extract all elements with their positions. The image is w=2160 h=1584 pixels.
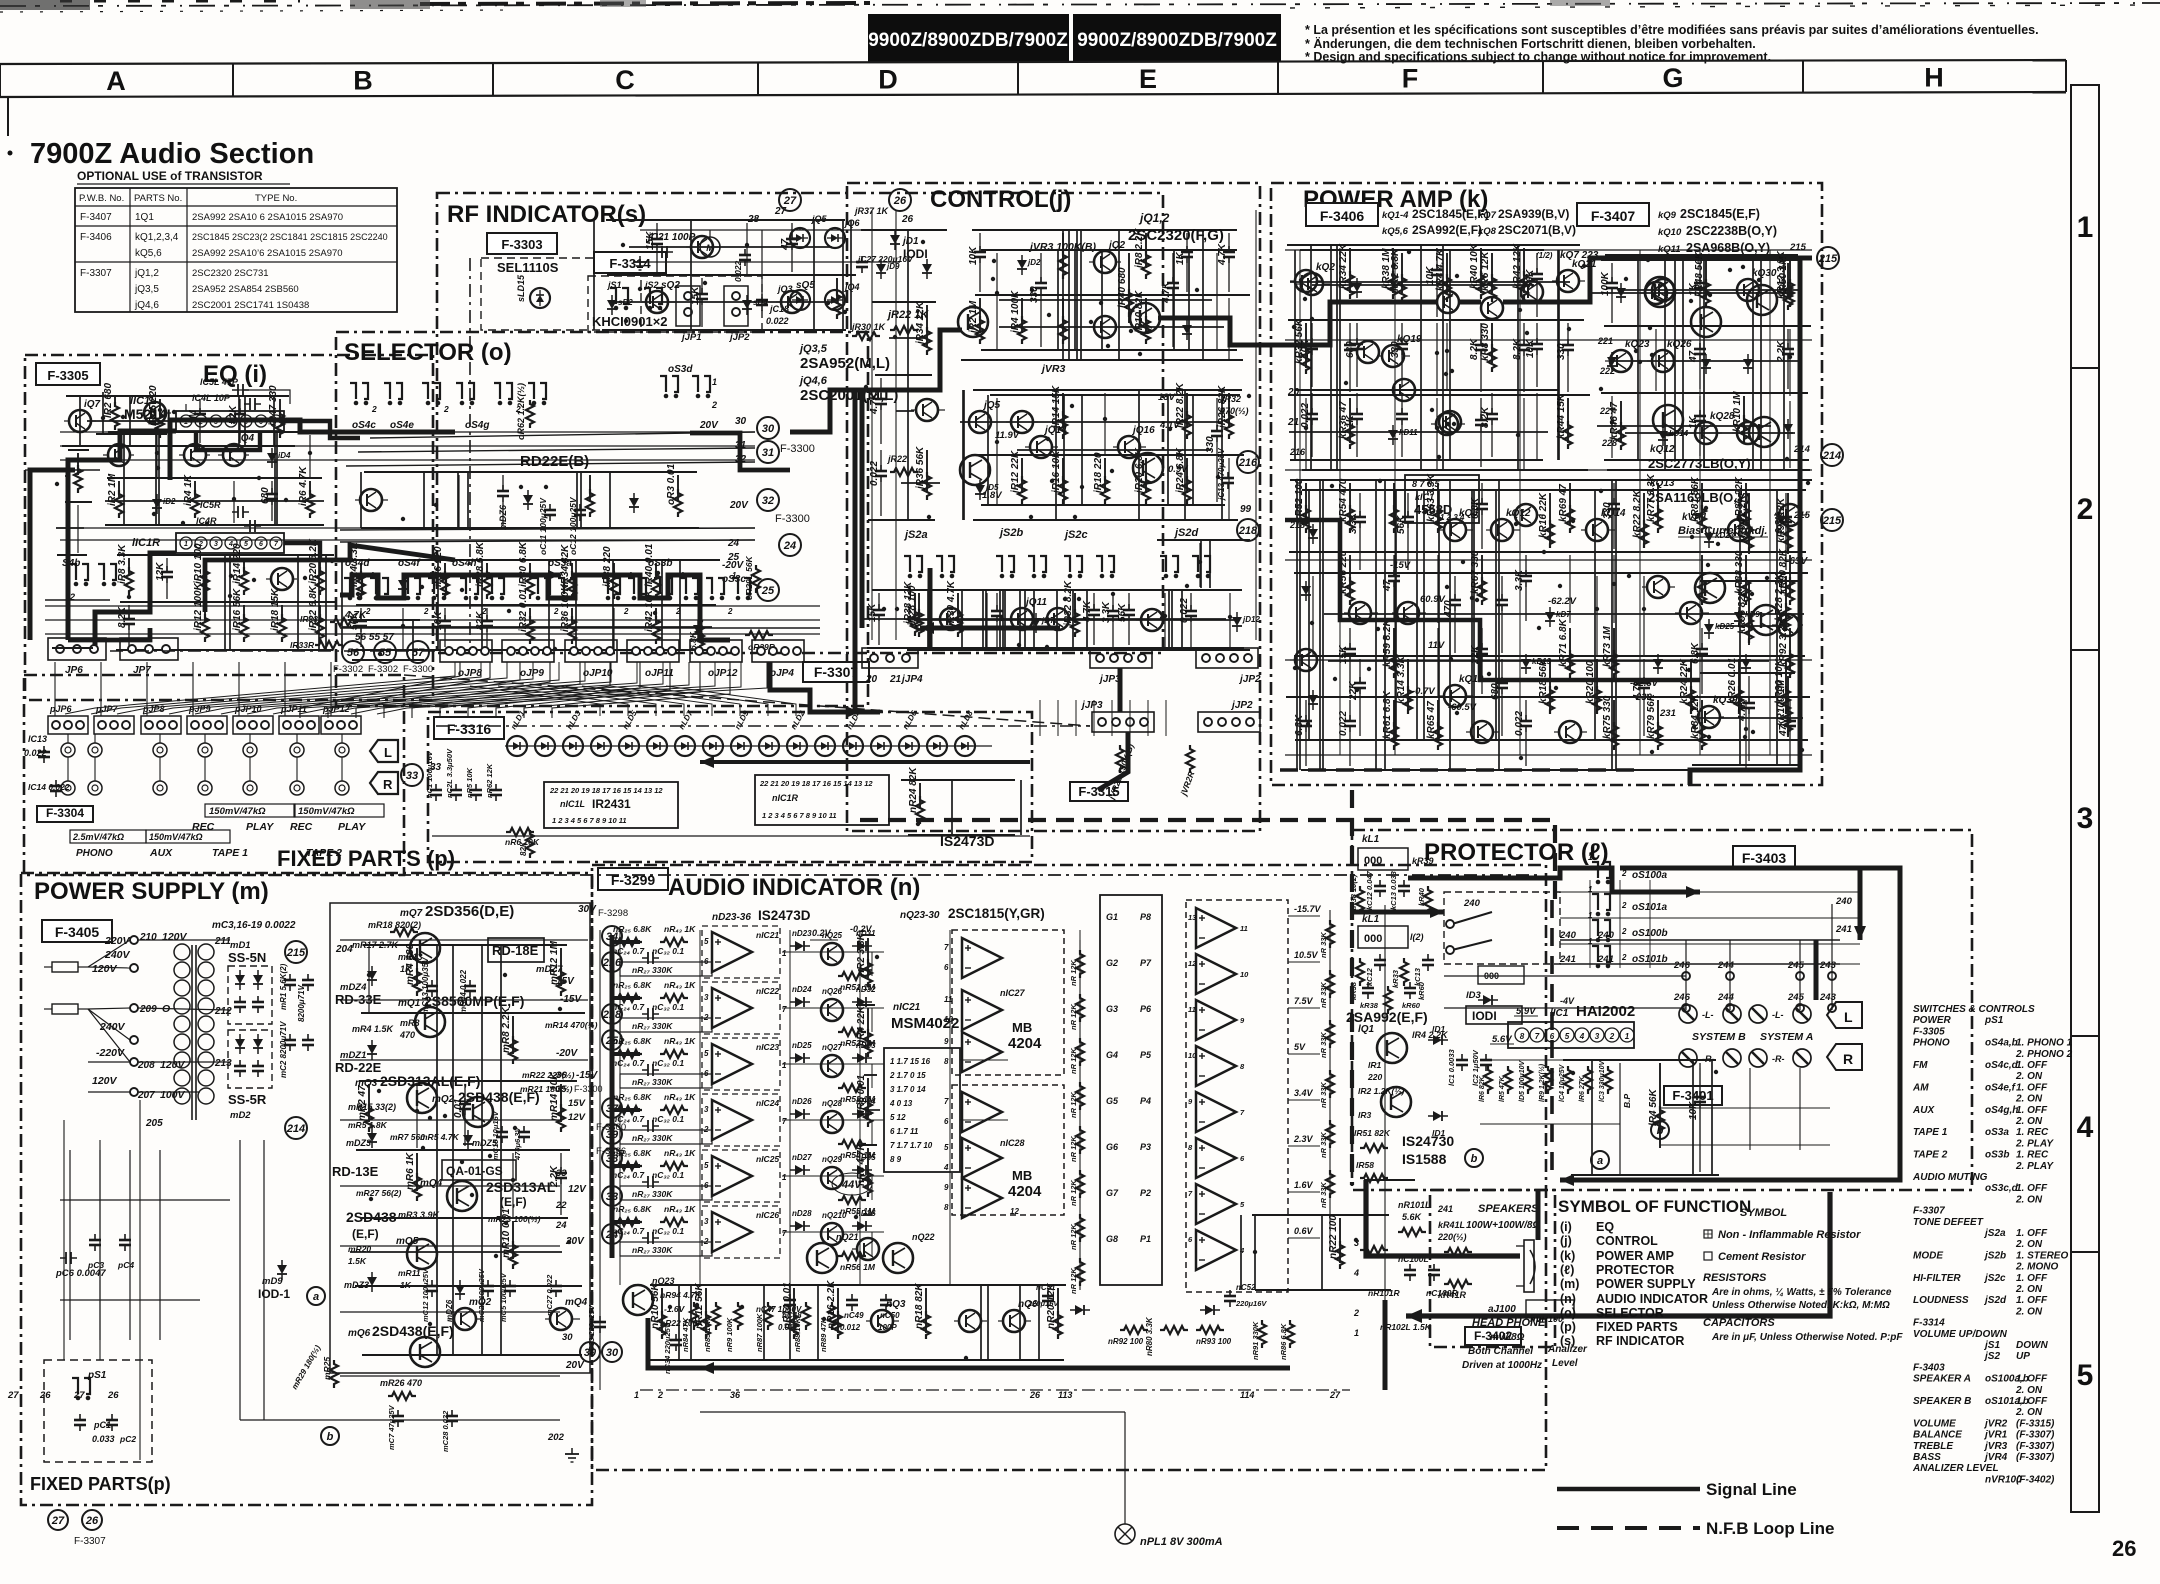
transistor sQ1 bbox=[641, 280, 680, 313]
wire bbox=[158, 432, 160, 525]
svg-text:nR₂₇ 330K: nR₂₇ 330K bbox=[632, 1133, 673, 1143]
circled 30 bbox=[580, 1342, 600, 1362]
svg-text:F-3307: F-3307 bbox=[74, 1536, 106, 1547]
svg-text:2: 2 bbox=[553, 607, 559, 616]
svg-text:-0.2V: -0.2V bbox=[850, 924, 873, 934]
svg-text:iR32 0.01: iR32 0.01 bbox=[518, 588, 529, 632]
junction bbox=[1599, 489, 1603, 493]
svg-text:kR60: kR60 bbox=[1417, 981, 1426, 1000]
svg-text:kR94 2.2K: kR94 2.2K bbox=[1737, 494, 1748, 543]
svg-text:kD23: kD23 bbox=[1715, 531, 1735, 540]
bold path 240 bbox=[1352, 910, 1444, 915]
capacitor mC2 bbox=[549, 1153, 567, 1215]
transistor type labels bbox=[1382, 207, 1807, 255]
svg-text:1: 1 bbox=[782, 949, 787, 958]
transistor kQ22 bbox=[1605, 339, 1650, 372]
svg-text:F-3300: F-3300 bbox=[574, 1084, 603, 1094]
junction bbox=[1129, 329, 1133, 333]
svg-text:mR14 10K: mR14 10K bbox=[549, 1072, 560, 1121]
svg-text:150mV/47kΩ: 150mV/47kΩ bbox=[298, 806, 355, 817]
svg-text:HI-FILTER: HI-FILTER bbox=[1913, 1273, 1961, 1284]
svg-text:(i): (i) bbox=[1560, 1220, 1572, 1234]
junction bbox=[1303, 297, 1307, 301]
svg-text:JP6: JP6 bbox=[65, 665, 83, 676]
svg-text:470(½): 470(½) bbox=[1219, 406, 1249, 416]
junction bbox=[1392, 263, 1396, 267]
junction bbox=[1706, 563, 1710, 567]
junction bbox=[507, 609, 511, 613]
svg-text:120V: 120V bbox=[92, 1075, 118, 1087]
transistor mQ2 2SD438 bbox=[432, 1089, 586, 1127]
svg-text:nC₂₄ 0.7: nC₂₄ 0.7 bbox=[612, 1226, 645, 1236]
transistor lQ2 bbox=[1358, 1086, 1411, 1120]
svg-text:nD23-36: nD23-36 bbox=[712, 912, 751, 923]
f3316 filler bbox=[901, 767, 1021, 835]
svg-text:jVR4: jVR4 bbox=[1983, 1452, 2008, 1463]
svg-text:8: 8 bbox=[1520, 1032, 1525, 1041]
junction bbox=[895, 607, 899, 611]
svg-text:SS-5R: SS-5R bbox=[228, 1092, 267, 1107]
svg-text:lR33L: lR33L bbox=[300, 614, 323, 624]
comparator triangle 4 bbox=[1196, 1046, 1236, 1086]
svg-text:1Q1: 1Q1 bbox=[135, 212, 154, 223]
svg-text:jR38 12K: jR38 12K bbox=[903, 581, 914, 626]
resistor iR37 bbox=[602, 546, 618, 599]
svg-text:1: 1 bbox=[1588, 885, 1593, 894]
svg-text:SYMBOL: SYMBOL bbox=[1740, 1207, 1787, 1219]
resistor kR76 bbox=[1646, 473, 1662, 533]
svg-text:P5: P5 bbox=[1140, 1050, 1152, 1060]
svg-text:F-3302: F-3302 bbox=[368, 664, 398, 675]
svg-text:FIXED PARTS: FIXED PARTS bbox=[1596, 1320, 1678, 1334]
svg-text:4: 4 bbox=[1239, 1246, 1245, 1255]
svg-text:nC₂₄ 0.7: nC₂₄ 0.7 bbox=[612, 1002, 645, 1012]
svg-text:1. OFF: 1. OFF bbox=[2016, 1396, 2048, 1407]
switch unit bbox=[456, 383, 474, 405]
junction bbox=[1160, 616, 1164, 620]
svg-text:mR4 1.5K: mR4 1.5K bbox=[352, 1024, 395, 1034]
svg-text:nR5 10K: nR5 10K bbox=[465, 767, 474, 798]
wire bbox=[1375, 480, 1377, 770]
junction bbox=[152, 512, 156, 516]
svg-text:8200μ71V: 8200μ71V bbox=[297, 984, 306, 1022]
wire bbox=[1080, 230, 1082, 360]
caps nC51 nC52 bbox=[1027, 1283, 1267, 1315]
circled 215b bbox=[1821, 509, 1843, 531]
wire bbox=[1055, 390, 1057, 520]
wire bus bbox=[650, 1284, 1066, 1286]
IC nIC1L IR2431 bbox=[544, 782, 678, 828]
svg-text:kR60: kR60 bbox=[1402, 1001, 1421, 1010]
wire bbox=[318, 555, 320, 650]
svg-text:7: 7 bbox=[1535, 1032, 1540, 1041]
resistor nR86 6.8K bbox=[1279, 1320, 1294, 1360]
svg-text:2SA952 2SA854 2SB560: 2SA952 2SA854 2SB560 bbox=[192, 284, 299, 295]
jack ring lower bbox=[61, 781, 75, 795]
wire bbox=[1330, 245, 1332, 470]
wire bbox=[980, 1285, 982, 1360]
svg-text:Unless Otherwise Noted. K:kΩ,: Unless Otherwise Noted. K:kΩ, M:MΩ bbox=[1712, 1300, 1890, 1311]
27 26 nodes bottom bbox=[7, 1390, 119, 1401]
svg-text:iR30 6.8K: iR30 6.8K bbox=[518, 541, 529, 587]
junction bbox=[1470, 596, 1474, 600]
wire bbox=[1692, 1060, 1694, 1175]
svg-text:nR₂₇ 330K: nR₂₇ 330K bbox=[632, 1077, 673, 1087]
resistor bbox=[1524, 1066, 1532, 1094]
wire bus bbox=[1295, 739, 1808, 741]
svg-text:nR₄₃ 1K: nR₄₃ 1K bbox=[664, 980, 696, 990]
wire bbox=[467, 472, 469, 528]
junction bbox=[1542, 550, 1546, 554]
junction bbox=[1000, 617, 1004, 621]
bold protector to audio bbox=[1550, 900, 1554, 1180]
svg-text:330: 330 bbox=[1029, 286, 1040, 303]
switch unit bbox=[602, 578, 620, 600]
svg-text:-15.7V: -15.7V bbox=[1294, 904, 1322, 914]
svg-text:27: 27 bbox=[73, 1390, 85, 1401]
capacitor bbox=[490, 784, 502, 801]
capacitor kC4 bbox=[1345, 393, 1363, 457]
svg-text:kD11: kD11 bbox=[1399, 428, 1418, 437]
wire bus bbox=[65, 501, 92, 503]
svg-text:-15V: -15V bbox=[576, 1070, 598, 1081]
svg-text:nR₂₅ 6.8K: nR₂₅ 6.8K bbox=[613, 1092, 652, 1102]
bold rail to protector bbox=[1690, 560, 1800, 785]
svg-text:5 12: 5 12 bbox=[890, 1113, 906, 1122]
svg-text:lR3: lR3 bbox=[1358, 1110, 1372, 1120]
svg-text:kL1: kL1 bbox=[1362, 834, 1380, 845]
wire bbox=[1594, 490, 1596, 740]
transistor nQ26 bbox=[821, 987, 843, 1021]
diodes lD1 lD1 bbox=[1428, 1024, 1448, 1138]
wire bbox=[987, 395, 989, 505]
wire bus bbox=[856, 1004, 875, 1006]
svg-text:POWER AMP: POWER AMP bbox=[1596, 1249, 1674, 1263]
svg-text:jJP2: jJP2 bbox=[728, 332, 750, 343]
wire bus bbox=[609, 301, 834, 303]
wire bbox=[297, 555, 299, 650]
resistor kR13 bbox=[1396, 655, 1412, 714]
svg-text:a: a bbox=[313, 1291, 319, 1303]
junction bbox=[1050, 479, 1054, 483]
wire bus bbox=[972, 454, 1244, 456]
resistor iR35 bbox=[560, 583, 576, 644]
capacitor kC25 bbox=[1469, 323, 1487, 392]
resistor jR23 bbox=[1175, 447, 1191, 504]
transistor nQ4 bbox=[954, 1310, 987, 1332]
svg-text:nR 33K: nR 33K bbox=[1319, 1182, 1328, 1208]
svg-text:2: 2 bbox=[1353, 1308, 1359, 1318]
junction bbox=[428, 1322, 432, 1326]
svg-text:-60.5V: -60.5V bbox=[1448, 702, 1477, 713]
diode kD1 bbox=[1352, 278, 1362, 298]
capacitor lC1 bbox=[1688, 1063, 1706, 1172]
wire bus bbox=[68, 449, 89, 451]
node 38 bbox=[602, 1148, 622, 1168]
wire bus bbox=[364, 471, 697, 473]
wire bbox=[1423, 490, 1425, 740]
wire bus bbox=[117, 554, 334, 556]
capacitor jC8 bbox=[869, 450, 887, 516]
svg-text:nQ22: nQ22 bbox=[912, 1232, 935, 1242]
transistor mQ4 2SD313AL bbox=[356, 1168, 587, 1211]
scan speckle top edge bbox=[0, 0, 2160, 12]
capacitor jC13 bbox=[1161, 253, 1179, 347]
caps kC12 kC13 bbox=[1349, 870, 1432, 914]
wire bbox=[1299, 480, 1301, 770]
wire bbox=[1789, 401, 1791, 468]
svg-text:56K: 56K bbox=[1117, 603, 1128, 622]
svg-text:nC₂₄ 0.7: nC₂₄ 0.7 bbox=[612, 1058, 645, 1068]
protector matrix wires bbox=[1560, 880, 1860, 968]
transistor kQ5 bbox=[1344, 602, 1378, 624]
svg-text:jQ1,2: jQ1,2 bbox=[1138, 211, 1170, 225]
wire bbox=[1063, 395, 1065, 505]
svg-text:mD9: mD9 bbox=[262, 1276, 283, 1287]
svg-text:lR33R: lR33R bbox=[290, 640, 315, 650]
wire selector bus 30 bbox=[370, 432, 755, 438]
wire bbox=[1019, 1285, 1021, 1360]
switch unit bbox=[486, 578, 504, 600]
wire bbox=[1033, 590, 1035, 648]
capacitor mC9 bbox=[252, 1060, 264, 1077]
wire bus bbox=[1328, 660, 1769, 662]
svg-text:nR20 12K: nR20 12K bbox=[1046, 1283, 1057, 1329]
capacitor kC5 bbox=[1390, 323, 1408, 387]
svg-text:Driven at 1000Hz: Driven at 1000Hz bbox=[1462, 1360, 1542, 1371]
wire bus bbox=[1616, 325, 1811, 327]
diode kD8 bbox=[1734, 607, 1760, 627]
wire bbox=[1038, 1285, 1040, 1360]
resistor nR3 bbox=[856, 1005, 872, 1057]
svg-text:kR61 6.8K: kR61 6.8K bbox=[1382, 690, 1393, 739]
svg-text:2. ON: 2. ON bbox=[2015, 1284, 2043, 1295]
wire bbox=[1209, 540, 1211, 588]
node 57 bbox=[407, 641, 429, 663]
resistor bbox=[1584, 1066, 1592, 1094]
resistor iR25 bbox=[433, 546, 449, 599]
svg-text:F-3303: F-3303 bbox=[501, 237, 542, 252]
transistor kQ20 bbox=[1552, 259, 1597, 292]
junction bbox=[1707, 254, 1711, 258]
switch unit bbox=[1064, 556, 1082, 578]
svg-text:F-3298: F-3298 bbox=[598, 908, 628, 919]
wire bus bbox=[864, 1074, 877, 1076]
svg-text:H: H bbox=[1924, 62, 1944, 92]
resistor jR5 bbox=[1059, 233, 1067, 279]
wire bbox=[1664, 255, 1666, 470]
resistor network stage 4 bbox=[612, 1092, 712, 1144]
svg-text:245: 245 bbox=[1787, 992, 1805, 1003]
CONTROL block frame bbox=[847, 183, 1260, 831]
connector JP6 bbox=[48, 638, 106, 676]
wire bbox=[1703, 260, 1705, 460]
svg-text:kQ2: kQ2 bbox=[1316, 262, 1335, 273]
L R arrow plates bbox=[370, 740, 398, 794]
wire bbox=[1240, 1215, 1242, 1290]
switch unit bbox=[996, 556, 1014, 578]
transformer bbox=[174, 944, 214, 1120]
svg-text:7: 7 bbox=[782, 1117, 787, 1126]
node 37 bbox=[602, 1098, 622, 1118]
svg-text:30: 30 bbox=[562, 1332, 573, 1343]
resistor jR37 bbox=[903, 581, 919, 636]
junction bbox=[121, 415, 125, 419]
wire bus bbox=[902, 589, 1240, 591]
svg-text:nR 12K: nR 12K bbox=[1069, 1224, 1078, 1250]
F-3300 texts bbox=[699, 416, 815, 585]
wire bus bbox=[1287, 244, 1580, 246]
wire bus bbox=[629, 246, 832, 248]
wires protector matrix bbox=[1444, 904, 1840, 1010]
junction bbox=[699, 619, 703, 623]
right margin zone strip bbox=[2071, 85, 2099, 1512]
resistor bbox=[1604, 1066, 1612, 1094]
svg-text:2.2K: 2.2K bbox=[1776, 340, 1787, 363]
junction bbox=[503, 973, 507, 977]
svg-text:lR6 27K: lR6 27K bbox=[1579, 1075, 1586, 1102]
wire bbox=[123, 432, 125, 525]
resistor ladder 12K column bbox=[1069, 940, 1084, 1294]
resistor iR7 bbox=[117, 544, 133, 595]
svg-text:21: 21 bbox=[889, 674, 902, 685]
LED nLD bbox=[815, 736, 835, 756]
tall gate IC box bbox=[1100, 895, 1162, 1285]
bold EQ input lines bbox=[30, 470, 75, 640]
junction bbox=[284, 498, 288, 502]
svg-text:60.9V: 60.9V bbox=[1420, 594, 1445, 605]
circled a bbox=[1591, 1151, 1609, 1169]
junction bbox=[1571, 519, 1575, 523]
connector jJP2 bbox=[724, 286, 750, 343]
left margin tick bbox=[7, 97, 9, 136]
svg-text:lR2 1.2K(½): lR2 1.2K(½) bbox=[1358, 1086, 1404, 1096]
junction bbox=[434, 503, 438, 507]
svg-text:KHCI0901×2: KHCI0901×2 bbox=[592, 314, 668, 329]
svg-text:oS4e: oS4e bbox=[390, 420, 414, 431]
jack ring bbox=[290, 743, 304, 757]
diode nD36 bbox=[852, 1209, 876, 1231]
op-amp nIC23b bbox=[702, 1150, 787, 1202]
junction bbox=[1750, 592, 1754, 596]
svg-text:kQ5,6: kQ5,6 bbox=[1382, 226, 1409, 237]
svg-text:nD36: nD36 bbox=[856, 1209, 876, 1218]
svg-text:10: 10 bbox=[1188, 1051, 1197, 1060]
node 24 bbox=[602, 1224, 622, 1244]
svg-text:REC: REC bbox=[192, 821, 215, 833]
diode jD1 bbox=[1017, 255, 1041, 275]
switch unit bbox=[558, 578, 576, 600]
svg-text:sQ2: sQ2 bbox=[661, 280, 680, 291]
wire bbox=[155, 432, 157, 525]
svg-text:2: 2 bbox=[1621, 927, 1627, 936]
wire bus bbox=[864, 618, 1226, 620]
svg-text:5: 5 bbox=[704, 1161, 709, 1170]
resistor sR1 bbox=[833, 278, 841, 319]
transistor kQ34 bbox=[1510, 504, 1543, 526]
capacitor kC17 bbox=[1396, 493, 1414, 570]
wire bbox=[309, 435, 311, 477]
junction bbox=[1185, 584, 1189, 588]
svg-text:G8: G8 bbox=[1106, 1234, 1118, 1244]
svg-text:F-3405: F-3405 bbox=[55, 924, 100, 940]
wire bus bbox=[1300, 249, 1544, 251]
wire bus under leds bbox=[432, 835, 1030, 837]
LED nLD bbox=[563, 736, 583, 756]
svg-text:-20V: -20V bbox=[556, 1048, 578, 1059]
jack ring lower bbox=[243, 781, 257, 795]
wire bus bbox=[861, 229, 947, 231]
svg-text:mQ6: mQ6 bbox=[348, 1328, 371, 1339]
svg-text:lC4L 10P: lC4L 10P bbox=[192, 393, 231, 403]
svg-text:VOLUME: VOLUME bbox=[1913, 1418, 1956, 1429]
labels jQ12 2SC2320 bbox=[1128, 211, 1224, 244]
capacitor kC9 bbox=[1525, 323, 1543, 387]
svg-text:1. OFF: 1. OFF bbox=[2016, 1374, 2048, 1385]
rf dashed inner vertical bbox=[469, 258, 471, 650]
svg-text:nR 33K: nR 33K bbox=[1319, 932, 1328, 958]
svg-text:26: 26 bbox=[85, 1515, 99, 1527]
wire bbox=[1216, 253, 1218, 349]
transistor jQ3 bbox=[1089, 316, 1121, 338]
wires rf indicator bbox=[640, 228, 900, 294]
svg-text:jVR3 100K(B): jVR3 100K(B) bbox=[1028, 241, 1096, 253]
svg-text:kR84 12K: kR84 12K bbox=[1690, 693, 1701, 739]
svg-text:8 9: 8 9 bbox=[890, 1155, 902, 1164]
svg-text:SYSTEM B: SYSTEM B bbox=[1692, 1031, 1746, 1043]
resistor bbox=[1484, 1066, 1492, 1094]
junction bbox=[1650, 353, 1654, 357]
resistor iR9 bbox=[193, 543, 209, 595]
node 24 bbox=[779, 534, 801, 556]
resistor kR45 bbox=[1609, 401, 1625, 450]
resistor iR11 bbox=[193, 582, 209, 642]
capacitor kC7 bbox=[1480, 393, 1498, 457]
wire bbox=[690, 220, 692, 330]
wire bus bbox=[356, 604, 716, 606]
svg-text:5: 5 bbox=[704, 937, 709, 946]
svg-text:2: 2 bbox=[711, 400, 717, 410]
junction bbox=[1110, 469, 1114, 473]
svg-text:kR69 47: kR69 47 bbox=[1558, 484, 1569, 522]
wire bbox=[548, 560, 550, 650]
wire bbox=[156, 435, 158, 477]
resistor mR9 bbox=[501, 1208, 517, 1269]
F-3314 label bbox=[594, 252, 666, 273]
junction bbox=[544, 485, 548, 489]
svg-text:LOUDNESS: LOUDNESS bbox=[1913, 1295, 1969, 1306]
svg-text:nR₂₇ 330K: nR₂₇ 330K bbox=[632, 1021, 673, 1031]
RD-18E box bbox=[488, 938, 575, 987]
wire bbox=[1558, 250, 1560, 460]
comparator triangle 8 bbox=[1196, 1230, 1236, 1270]
EQ block frame bbox=[25, 355, 433, 700]
switch S4b bbox=[62, 558, 116, 602]
capacitor jC14 bbox=[1205, 398, 1223, 502]
svg-text:2: 2 bbox=[623, 607, 629, 616]
svg-text:2 1.7 0 15: 2 1.7 0 15 bbox=[889, 1071, 926, 1080]
wire bus bbox=[973, 519, 1238, 521]
resistor iR5 bbox=[298, 466, 314, 518]
wire bbox=[1228, 298, 1230, 359]
svg-text:9900Z/8900ZDB/7900Z: 9900Z/8900ZDB/7900Z bbox=[868, 30, 1068, 51]
resistor jR15 bbox=[1051, 450, 1067, 504]
svg-text:1: 1 bbox=[1625, 1032, 1630, 1041]
svg-text:2SC1845(E,F): 2SC1845(E,F) bbox=[1680, 207, 1760, 221]
resistor nR9 bbox=[650, 1283, 666, 1339]
resistor lR3 bbox=[1648, 1063, 1664, 1148]
protector F-3401 wires bbox=[1660, 1068, 1830, 1150]
